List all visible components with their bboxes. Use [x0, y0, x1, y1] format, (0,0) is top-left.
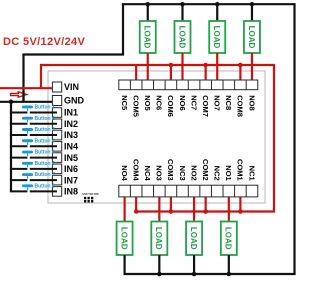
svg-text:VIN: VIN	[64, 82, 79, 92]
junction black bus ch7	[215, 2, 220, 7]
wire left vertical to GND	[22, 55, 24, 102]
wire red bus to COM8 terminal	[239, 65, 241, 87]
svg-text:NO6: NO6	[178, 95, 187, 110]
wire LOAD3 to black bus	[158, 255, 160, 274]
svg-text:GND: GND	[64, 96, 85, 106]
svg-text:NO5: NO5	[143, 95, 152, 110]
wire NO2 terminal to LOAD2	[193, 191, 195, 222]
svg-text:IN1: IN1	[64, 108, 78, 118]
svg-text:LOAD: LOAD	[224, 227, 233, 250]
svg-text:NC5: NC5	[120, 95, 129, 110]
svg-text:COM6: COM6	[166, 95, 175, 117]
wire top black bus	[122, 3, 296, 5]
wire NO1 terminal to LOAD1	[228, 191, 230, 222]
wire LOAD8 to NO8 terminal	[251, 53, 253, 87]
junction red bus COM1	[238, 209, 243, 214]
svg-text:IN7: IN7	[64, 175, 78, 185]
svg-text:NC1: NC1	[247, 166, 256, 181]
svg-text:LOAD: LOAD	[212, 26, 221, 49]
arrow current direction on VIN wire	[11, 92, 27, 97]
junction red bus COM6	[169, 63, 174, 68]
wire red bus to COM1 terminal	[239, 191, 241, 212]
load LOAD (channel 6)	[174, 21, 190, 53]
svg-text:NO7: NO7	[213, 95, 222, 110]
load LOAD (channel 2)	[186, 222, 202, 256]
wire LOAD7 to black bus	[216, 4, 218, 21]
svg-text:IN4: IN4	[64, 142, 78, 152]
wire red bus to COM2 terminal	[205, 191, 207, 212]
svg-text:COM8: COM8	[236, 95, 245, 117]
wire LOAD5 to NO5 terminal	[147, 53, 149, 87]
load LOAD (channel 8)	[244, 21, 260, 53]
junction black bus ch3	[157, 272, 162, 277]
svg-text:NO1: NO1	[224, 165, 233, 180]
wire NO4 terminal to LOAD4	[123, 191, 125, 222]
relay board outline	[48, 71, 265, 203]
wire left vertical over arrow	[22, 91, 24, 102]
wire VIN from supply	[0, 87, 57, 89]
button Button 4	[10, 145, 28, 147]
junction black bus ch1	[227, 272, 232, 277]
button Button 2	[10, 123, 28, 125]
button Button 6	[10, 168, 28, 170]
junction red bus COM3	[169, 209, 174, 214]
svg-text:COM1: COM1	[236, 159, 245, 181]
load LOAD (channel 3)	[151, 222, 167, 256]
button Button 3	[10, 134, 28, 136]
svg-text:COM2: COM2	[201, 159, 210, 181]
wire bottom black bus	[123, 273, 295, 275]
svg-text:Button 3: Button 3	[35, 127, 55, 133]
wire top red bus	[41, 64, 275, 66]
svg-text:DC 5V/12V/24V: DC 5V/12V/24V	[3, 36, 86, 48]
junction GND / button bus	[9, 100, 14, 105]
wire red bus to COM6 terminal	[170, 65, 172, 87]
wire top-left vertical from bus	[122, 4, 124, 54]
wire red bus to COM3 terminal	[170, 191, 172, 212]
wire button common bus	[10, 102, 12, 192]
wire bottom red bus	[136, 210, 275, 212]
wire red bus to COM7 terminal	[205, 65, 207, 87]
svg-text:COM7: COM7	[201, 95, 210, 117]
button Button 8	[10, 190, 28, 192]
svg-text:LOAD: LOAD	[177, 26, 186, 49]
terminal block top (relay outputs 5-8)	[119, 80, 258, 90]
svg-text:Button 5: Button 5	[35, 150, 55, 156]
wire LOAD4 to black bus	[123, 255, 125, 274]
svg-text:Button 2: Button 2	[35, 116, 55, 122]
junction red bus COM4	[134, 209, 139, 214]
terminal block left (VIN GND IN1-IN8)	[52, 82, 61, 196]
svg-text:IN6: IN6	[64, 164, 78, 174]
svg-text:NC7: NC7	[189, 95, 198, 110]
svg-text:LOAD: LOAD	[189, 227, 198, 250]
wire red bus to COM5 terminal	[135, 65, 137, 87]
svg-text:COM3: COM3	[166, 159, 175, 181]
button Button 7	[10, 179, 28, 181]
svg-text:NC3: NC3	[178, 166, 187, 181]
wire LOAD2 to black bus	[193, 255, 195, 274]
wire right red rail	[273, 65, 275, 212]
svg-text:LOAD: LOAD	[154, 227, 163, 250]
junction black bus ch2	[192, 272, 197, 277]
junction red bus COM2	[203, 209, 208, 214]
svg-text:NO8: NO8	[247, 95, 256, 110]
load LOAD (channel 1)	[221, 222, 237, 256]
svg-text:COM5: COM5	[131, 95, 140, 117]
svg-text:NC8: NC8	[224, 95, 233, 110]
junction black bus ch6	[180, 2, 185, 7]
wire LOAD8 to black bus	[251, 4, 253, 21]
svg-text:NO3: NO3	[155, 165, 164, 180]
wire NO3 terminal to LOAD3	[158, 191, 160, 222]
wire LOAD5 to black bus	[147, 4, 149, 21]
wire red bus to COM4 terminal	[135, 191, 137, 212]
svg-text:NC2: NC2	[213, 166, 222, 181]
svg-text:NO4: NO4	[120, 165, 129, 181]
svg-text:LOAD: LOAD	[119, 227, 128, 250]
svg-text:Button 4: Button 4	[35, 138, 55, 144]
load LOAD (channel 5)	[140, 21, 156, 53]
svg-text:LOAD: LOAD	[143, 26, 152, 49]
load LOAD (channel 7)	[209, 21, 225, 53]
svg-text:NC6: NC6	[155, 95, 164, 110]
svg-text:Button 1: Button 1	[35, 105, 55, 111]
svg-text:NC4: NC4	[143, 166, 152, 182]
svg-text:GND TXD RXD: GND TXD RXD	[82, 193, 99, 196]
terminal block bottom (relay outputs 1-4)	[119, 185, 258, 197]
wire top-left horizontal	[22, 53, 124, 55]
wire LOAD6 to NO6 terminal	[181, 53, 183, 87]
junction red bus COM8	[238, 63, 243, 68]
svg-text:IN2: IN2	[64, 119, 78, 129]
junction red bus COM7	[203, 63, 208, 68]
wire red riser to top bus	[40, 64, 42, 88]
wire LOAD6 to black bus	[181, 4, 183, 21]
button Button 1	[10, 112, 28, 114]
svg-text:IN5: IN5	[64, 153, 78, 163]
button Button 5	[10, 157, 28, 159]
svg-text:Button 7: Button 7	[35, 172, 55, 178]
svg-text:Button 6: Button 6	[35, 161, 55, 167]
wire GND from supply	[0, 101, 57, 103]
svg-text:LOAD: LOAD	[247, 26, 256, 49]
wire right black rail	[293, 4, 295, 274]
svg-text:COM4: COM4	[131, 159, 140, 181]
junction black bus ch5	[146, 2, 151, 7]
svg-text:Button 8: Button 8	[35, 183, 55, 189]
wire LOAD7 to NO7 terminal	[216, 53, 218, 87]
svg-text:IN8: IN8	[64, 187, 78, 197]
svg-text:NO2: NO2	[189, 165, 198, 180]
junction black bus ch8	[250, 2, 255, 7]
load LOAD (channel 4)	[117, 222, 133, 256]
svg-text:IN3: IN3	[64, 130, 78, 140]
wire LOAD1 to black bus	[228, 255, 230, 274]
